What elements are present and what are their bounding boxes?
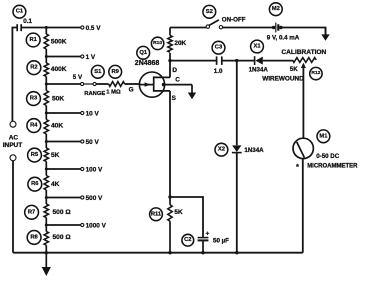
svg-text:40K: 40K: [51, 123, 63, 130]
wire C3 to X1: [222, 60, 254, 62]
svg-text:4K: 4K: [51, 181, 60, 188]
svg-text:C1: C1: [16, 9, 24, 15]
wire drain to C3: [170, 60, 216, 62]
svg-text:*: *: [296, 162, 299, 171]
svg-text:X1: X1: [253, 44, 261, 50]
svg-text:50 V: 50 V: [86, 139, 100, 146]
svg-text:1.0: 1.0: [214, 68, 223, 75]
svg-text:AC: AC: [9, 135, 19, 142]
node case pin C: [162, 83, 166, 87]
battery M2 9V: [272, 23, 283, 33]
svg-text:500K: 500K: [51, 38, 67, 45]
svg-text:5K: 5K: [51, 152, 60, 159]
designator Q1: [137, 46, 150, 59]
designator M1: [317, 130, 330, 143]
svg-text:R8: R8: [30, 234, 38, 240]
wire tap 1000 V: [46, 224, 81, 226]
node divider to rail: [45, 251, 48, 254]
svg-text:WIREWOUND: WIREWOUND: [262, 76, 304, 83]
terminal 1000 V: [81, 223, 84, 226]
svg-text:0.1: 0.1: [23, 18, 32, 25]
svg-text:Q1: Q1: [139, 50, 148, 56]
wire tap 10 V: [46, 112, 81, 114]
svg-text:RANGE: RANGE: [84, 91, 105, 97]
svg-text:C3: C3: [215, 45, 223, 51]
resistor R3: [44, 91, 48, 106]
diode X1 1N34A: [255, 56, 263, 65]
wire tap 1 V: [46, 56, 81, 58]
wire battery to ground: [281, 28, 326, 35]
designator X1: [251, 40, 264, 53]
designator R2: [27, 61, 41, 75]
svg-text:50 µF: 50 µF: [213, 237, 229, 244]
wire X2 branch upper: [236, 61, 238, 146]
terminal 10 V: [81, 111, 84, 114]
svg-text:S2: S2: [206, 9, 213, 15]
svg-text:500 Ω: 500 Ω: [53, 234, 72, 241]
svg-text:G: G: [129, 86, 134, 93]
designator C1: [13, 5, 26, 18]
svg-text:R12: R12: [311, 70, 320, 76]
wire ground bus (bottom rail): [13, 252, 303, 254]
wire C1 left lead and AC input top lead: [12, 28, 17, 122]
svg-text:R7: R7: [28, 209, 35, 215]
node drain junction: [168, 59, 171, 62]
svg-text:0-50 DC: 0-50 DC: [316, 153, 340, 160]
node divider tap 10 V: [45, 112, 48, 115]
wire source lead: [169, 91, 171, 197]
resistor R4: [44, 120, 48, 135]
svg-text:C: C: [175, 76, 180, 83]
svg-text:+: +: [206, 231, 210, 238]
svg-text:1 V: 1 V: [86, 54, 96, 61]
svg-text:C2: C2: [184, 237, 191, 243]
node X2 to rail: [235, 251, 238, 254]
wire tap 0.5 V: [46, 27, 81, 29]
wire S1 to R9: [96, 83, 108, 85]
resistor R8: [44, 232, 48, 246]
svg-text:500 Ω: 500 Ω: [53, 209, 72, 216]
designator R1: [26, 33, 40, 47]
svg-text:R6: R6: [31, 181, 39, 187]
designator C3: [212, 41, 225, 54]
svg-text:1000 V: 1000 V: [86, 222, 107, 229]
designator R6: [28, 177, 42, 191]
svg-text:500 V: 500 V: [86, 195, 103, 202]
svg-text:R11: R11: [151, 211, 162, 217]
designator R8: [27, 231, 41, 245]
capacitor C3: [217, 56, 222, 65]
svg-text:S: S: [172, 95, 177, 102]
svg-text:1 MΩ: 1 MΩ: [106, 89, 121, 95]
svg-text:S1: S1: [94, 69, 102, 75]
designator R4: [27, 119, 41, 133]
svg-text:R1: R1: [29, 37, 37, 43]
terminal 1 V: [81, 55, 84, 58]
wire top rail to S2: [170, 27, 206, 29]
meter M1 microammeter: [293, 138, 313, 158]
node divider tap 500 V: [45, 196, 48, 199]
svg-text:20K: 20K: [174, 40, 186, 47]
resistor R1: [44, 34, 48, 49]
terminal 0.5 V: [81, 26, 84, 29]
resistor R2: [44, 63, 48, 77]
wire X1 to calibration pot: [263, 60, 293, 62]
svg-text:2N4868: 2N4868: [135, 60, 160, 67]
svg-text:10 V: 10 V: [86, 110, 100, 117]
wire tap 50 V: [46, 141, 81, 143]
wire tap 500 V: [46, 197, 81, 199]
svg-text:MICROAMMETER: MICROAMMETER: [307, 164, 358, 170]
svg-text:1N34A: 1N34A: [249, 66, 269, 73]
terminal 50 V: [81, 140, 84, 143]
node divider tap 5 V: [45, 83, 48, 86]
svg-text:9 V, 0.4 mA: 9 V, 0.4 mA: [267, 34, 300, 41]
svg-text:CALIBRATION: CALIBRATION: [281, 49, 326, 56]
svg-text:100 V: 100 V: [86, 166, 103, 173]
designator S1: [91, 65, 104, 78]
wire R9 to gate of Q1: [125, 83, 140, 85]
node divider tap 1000 V: [45, 224, 48, 227]
svg-text:ON-OFF: ON-OFF: [222, 17, 246, 24]
terminal 100 V: [81, 167, 84, 170]
potentiometer R12 5K wirewound: [292, 58, 316, 68]
svg-text:50K: 50K: [52, 95, 64, 102]
node divider tap 100 V: [45, 168, 48, 171]
resistor R5: [44, 148, 48, 162]
resistor R9 1 M-ohm: [109, 82, 125, 87]
designator C2: [182, 234, 194, 246]
svg-text:R10: R10: [153, 40, 162, 46]
designator M2: [269, 3, 282, 16]
svg-text:D: D: [172, 67, 177, 74]
AC input bottom terminal: [10, 155, 16, 161]
svg-text:R4: R4: [30, 123, 38, 129]
capacitor C1: [17, 24, 46, 31]
designator R11: [150, 208, 163, 221]
svg-text:M2: M2: [272, 6, 280, 12]
svg-text:M1: M1: [319, 133, 328, 139]
capacitor C2 50uF: [198, 238, 209, 253]
node C2 to rail: [201, 251, 204, 254]
terminal 500 V: [81, 196, 84, 199]
wire X2 branch lower: [236, 153, 238, 253]
wire drain lead: [169, 61, 171, 78]
svg-text:R3: R3: [30, 96, 38, 102]
wire source junction to C2: [170, 197, 203, 237]
diode X2 1N34A: [232, 145, 242, 152]
wire 5 V tap to switch S1: [46, 83, 80, 85]
ground (battery negative): [321, 28, 329, 41]
wire AC input bottom lead: [12, 161, 14, 253]
resistor R6: [44, 176, 48, 191]
ground (main): [42, 253, 51, 276]
designator R3: [27, 92, 41, 106]
svg-text:400K: 400K: [51, 66, 67, 73]
svg-text:5 V: 5 V: [73, 74, 83, 81]
node source junction: [168, 195, 171, 198]
designator R10: [151, 37, 163, 49]
svg-text:R5: R5: [31, 152, 39, 158]
wire case pin to ground: [164, 84, 192, 86]
designator R9: [109, 65, 122, 78]
wire meter to ground bus: [302, 159, 304, 253]
designator R12: [310, 67, 322, 79]
designator S2: [203, 5, 216, 18]
wire S2 to battery: [223, 27, 273, 29]
designator R7: [25, 205, 39, 219]
svg-text:5K: 5K: [174, 209, 183, 216]
ground (case of Q1): [188, 85, 196, 100]
node divider tap 1 V: [45, 55, 48, 58]
node divider tap 50 V: [45, 140, 48, 143]
transistor Q1 2N4868: [139, 72, 170, 97]
svg-text:X2: X2: [218, 147, 225, 153]
svg-text:R2: R2: [30, 65, 37, 71]
svg-text:5K: 5K: [290, 66, 298, 73]
AC input top terminal: [10, 121, 16, 127]
switch S1 contacts: [81, 82, 97, 85]
designator R5: [28, 148, 42, 162]
svg-text:R9: R9: [111, 69, 119, 75]
svg-text:1N34A: 1N34A: [244, 147, 264, 154]
designator X2: [215, 143, 228, 156]
switch S2: [206, 20, 222, 29]
node R11 to rail: [168, 251, 171, 254]
resistor R11 5K: [168, 205, 172, 221]
svg-text:0.5 V: 0.5 V: [86, 25, 102, 32]
node X2 branch: [235, 59, 238, 62]
resistor R7: [44, 204, 48, 218]
resistor R10 20K: [168, 36, 172, 53]
node divider tap 0.5 V: [45, 26, 48, 29]
wire tap 100 V: [46, 168, 81, 170]
svg-text:INPUT: INPUT: [3, 142, 23, 149]
wire pot wiper to meter: [302, 68, 304, 138]
